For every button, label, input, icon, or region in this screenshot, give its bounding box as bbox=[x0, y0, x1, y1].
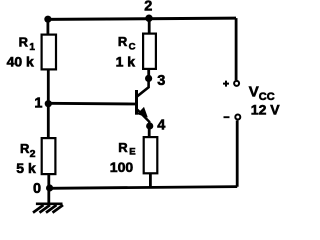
wire: base wire from node 1 to transistor bbox=[48, 102, 135, 105]
svg-text:100: 100 bbox=[110, 159, 134, 175]
node 1 bbox=[34, 96, 52, 112]
wire: RE bottom to bottom rail bbox=[149, 174, 152, 188]
wire: top rail bbox=[48, 18, 236, 19]
wire: top rail down to R1 bbox=[47, 19, 50, 34]
wire: node 2 down to RC top bbox=[148, 19, 151, 35]
wire: RC bottom to node 3 bbox=[147, 69, 150, 79]
resistor R2 bbox=[16, 138, 55, 176]
wire: node 4 to RE top bbox=[148, 126, 151, 138]
wire: right rail top corner down to Vcc+ bbox=[235, 18, 238, 80]
svg-text:V: V bbox=[249, 83, 259, 100]
terminal Vcc + bbox=[223, 81, 239, 87]
transistor Q1 emitter lead with arrow bbox=[137, 109, 149, 125]
node 0 bbox=[33, 181, 53, 197]
label Vcc 12V bbox=[249, 83, 280, 117]
transistor Q1 collector lead bbox=[137, 80, 148, 96]
svg-text:1: 1 bbox=[29, 42, 35, 53]
svg-text:5 k: 5 k bbox=[16, 160, 36, 176]
svg-text:R: R bbox=[118, 34, 128, 49]
wire: right rail Vcc- down to bottom corner bbox=[236, 121, 239, 187]
svg-text:4: 4 bbox=[157, 118, 165, 134]
svg-text:12 V: 12 V bbox=[251, 101, 280, 117]
resistor RC bbox=[116, 34, 156, 70]
svg-text:2: 2 bbox=[30, 148, 36, 160]
node 4 bbox=[146, 118, 165, 134]
wire: R2 bottom through node 0 to ground bbox=[47, 175, 50, 203]
wire: R1 bottom through node 1 to R2 top bbox=[47, 69, 50, 137]
svg-text:R: R bbox=[118, 140, 128, 155]
ground bbox=[33, 204, 63, 213]
svg-text:E: E bbox=[129, 147, 135, 158]
node 2 bbox=[144, 0, 152, 22]
terminal Vcc - bbox=[224, 115, 241, 120]
resistor RE bbox=[110, 137, 158, 175]
node 3 bbox=[145, 73, 165, 89]
transistor Q1 base bar bbox=[135, 90, 138, 115]
svg-text:0: 0 bbox=[33, 181, 41, 197]
junction dot at top of R1 bbox=[44, 16, 51, 23]
svg-text:C: C bbox=[129, 41, 136, 52]
svg-text:1 k: 1 k bbox=[116, 53, 136, 69]
svg-text:40 k: 40 k bbox=[7, 54, 34, 70]
svg-text:R: R bbox=[19, 34, 29, 49]
svg-text:R: R bbox=[20, 141, 30, 156]
wire: bottom rail bbox=[49, 187, 237, 189]
svg-text:1: 1 bbox=[34, 96, 42, 112]
resistor R1 bbox=[7, 34, 56, 69]
svg-text:3: 3 bbox=[157, 73, 165, 89]
svg-text:2: 2 bbox=[144, 0, 152, 15]
